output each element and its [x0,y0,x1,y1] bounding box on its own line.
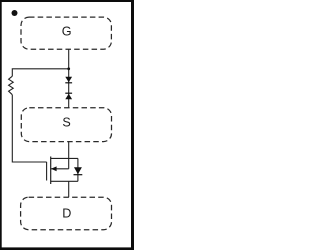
svg-text:G: G [62,24,72,38]
MOSFET Q1 gate bar [46,162,48,181]
gate pad G (dashed box) [21,17,111,49]
wire: gate branch to resistor [12,69,68,76]
node: gate junction dot [67,67,70,70]
svg-text:D: D [62,207,71,221]
pin 1 marker dot [12,10,18,16]
border frame [0,0,134,250]
svg-text:S: S [62,116,70,130]
label S [62,116,70,130]
resistor R1 (gate resistor zigzag) [9,76,14,95]
MOSFET Q1 drain stub (bottom) [51,180,78,182]
MOSFET Q1 source stub (top) [51,157,78,159]
ESD diode D2 (pointing up) [65,93,72,99]
wire: resistor down left rail to gate [12,95,46,162]
ESD diode D1 (pointing down) [65,77,72,83]
label D [62,207,71,221]
MOSFET Q1 channel bar [50,157,52,185]
source pad S (dashed box) [21,108,111,142]
wire: source pad to MOSFET source/body [68,142,70,169]
MOSFET Q1 body stub with arrow [51,166,69,171]
wire: gate pad down through ESD diodes to source pad [68,49,70,107]
wire: MOSFET drain to drain pad [68,181,70,197]
drain pad D (dashed box) [21,197,112,230]
label G [62,24,72,38]
body diode of Q1 [74,158,83,181]
